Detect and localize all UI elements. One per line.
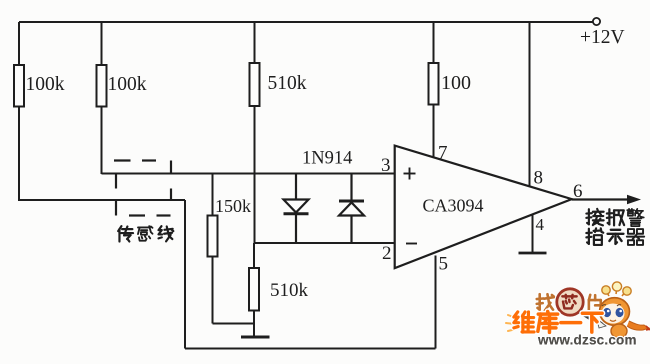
svg-text:3: 3 <box>381 155 391 176</box>
wire: pin 5 to bottom rail <box>435 256 437 349</box>
sensing line upper dashed wire <box>114 161 171 174</box>
svg-text:CA3094: CA3094 <box>423 196 484 216</box>
wire: 150k bottom to ground node <box>213 323 255 325</box>
resistor R3 510k (upper) <box>250 22 307 243</box>
svg-text:510k: 510k <box>268 73 307 94</box>
svg-text:100: 100 <box>441 72 471 94</box>
+12V supply terminal <box>580 18 625 48</box>
svg-text:150k: 150k <box>215 196 251 216</box>
sensing line stub to lower wire <box>170 189 172 201</box>
svg-text:100k: 100k <box>108 74 147 95</box>
svg-text:+12V: +12V <box>580 27 625 48</box>
svg-text:8: 8 <box>534 168 544 189</box>
svg-text:100k: 100k <box>26 74 65 95</box>
svg-text:7: 7 <box>438 143 448 164</box>
sensing line lower dashed wire <box>116 200 171 216</box>
svg-text:1N914: 1N914 <box>302 149 352 169</box>
resistor R5 150k <box>208 174 252 324</box>
resistor R4 100 <box>429 22 472 158</box>
ground under R6 <box>241 336 270 339</box>
wire: pin 4 <box>532 215 534 253</box>
ground under pin 4 <box>519 252 547 255</box>
wire: +12V top rail <box>19 21 593 23</box>
wire: drop to bottom rail <box>184 200 186 349</box>
resistor R1 100k <box>14 22 65 201</box>
label: 接报警 (to alarm) <box>586 209 643 226</box>
wire: output pin 6 with arrow <box>572 195 641 204</box>
svg-text:5: 5 <box>439 254 449 275</box>
resistor R2 100k <box>97 22 147 174</box>
svg-text:4: 4 <box>536 215 545 234</box>
wire: pin 8 from rail <box>529 22 531 187</box>
wire: inverting input node (pin 2) <box>255 242 395 244</box>
diode D2 1N914 (cathode top, anode bottom) <box>339 174 364 244</box>
label: 传感线 (sensing line) <box>118 226 173 241</box>
mascot <box>600 282 650 345</box>
wire: non-inverting input node (pin 3) <box>102 173 395 175</box>
svg-text:www.dzsc.com: www.dzsc.com <box>537 333 637 348</box>
svg-text:510k: 510k <box>270 280 309 301</box>
label: 指示器 (indicator) <box>586 228 644 245</box>
diode D1 1N914 (anode top, cathode bottom) <box>284 174 309 244</box>
sensing line stub from pin-3 wire <box>115 174 117 189</box>
wire: bottom rail <box>185 348 436 350</box>
svg-text:2: 2 <box>382 243 392 264</box>
op-amp U1 CA3094 <box>395 146 572 269</box>
watermark: dzsc.com logo <box>506 282 650 348</box>
resistor R6 510k (lower) <box>249 243 309 337</box>
wire: left branch down from R1 <box>19 199 185 201</box>
